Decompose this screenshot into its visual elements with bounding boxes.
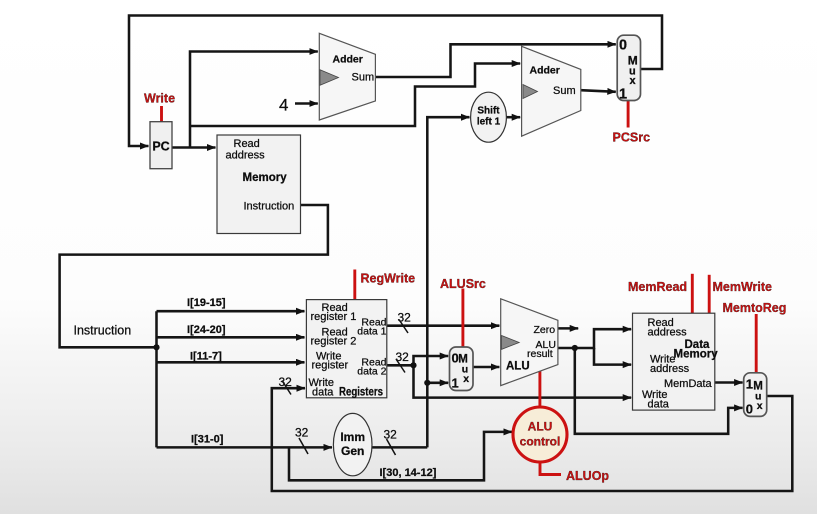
svg-text:x: x xyxy=(757,400,763,412)
svg-text:Imm: Imm xyxy=(340,430,365,444)
svg-text:Adder: Adder xyxy=(333,54,363,66)
svg-text:PC: PC xyxy=(152,140,169,154)
svg-text:RegWrite: RegWrite xyxy=(361,272,416,286)
svg-text:address: address xyxy=(650,363,690,375)
svg-text:Memory: Memory xyxy=(674,349,719,361)
svg-text:I[19-15]: I[19-15] xyxy=(187,297,226,309)
svg-text:I[11-7]: I[11-7] xyxy=(190,351,222,363)
svg-text:Adder: Adder xyxy=(530,65,560,77)
svg-text:Instruction: Instruction xyxy=(244,201,295,213)
svg-text:I[24-20]: I[24-20] xyxy=(187,324,226,336)
svg-text:register: register xyxy=(312,359,349,371)
svg-text:Read: Read xyxy=(234,138,260,150)
svg-text:data 2: data 2 xyxy=(357,366,386,378)
svg-text:4: 4 xyxy=(279,96,288,115)
svg-text:x: x xyxy=(630,75,637,87)
svg-text:0: 0 xyxy=(746,402,753,417)
svg-text:PCSrc: PCSrc xyxy=(613,131,651,145)
svg-text:Sum: Sum xyxy=(352,72,375,84)
svg-text:address: address xyxy=(648,327,688,339)
svg-text:data: data xyxy=(648,399,670,411)
svg-text:register 1: register 1 xyxy=(311,311,357,323)
svg-text:ALU: ALU xyxy=(506,361,530,373)
svg-text:Instruction: Instruction xyxy=(74,324,132,338)
svg-text:32: 32 xyxy=(384,428,398,442)
svg-text:1: 1 xyxy=(452,376,459,391)
svg-text:Shift: Shift xyxy=(477,106,500,117)
svg-text:left 1: left 1 xyxy=(477,117,501,128)
svg-text:result: result xyxy=(527,348,553,360)
svg-text:register 2: register 2 xyxy=(311,336,357,348)
svg-text:0: 0 xyxy=(619,38,627,54)
svg-text:address: address xyxy=(226,150,266,162)
svg-text:ALUOp: ALUOp xyxy=(566,469,609,483)
svg-text:32: 32 xyxy=(398,311,412,325)
svg-text:Zero: Zero xyxy=(534,324,556,336)
svg-text:MemtoReg: MemtoReg xyxy=(723,301,787,315)
svg-text:Memory: Memory xyxy=(243,172,288,184)
svg-text:data: data xyxy=(312,386,334,398)
svg-text:I[31-0]: I[31-0] xyxy=(191,434,224,446)
svg-text:ALUSrc: ALUSrc xyxy=(440,277,486,291)
svg-text:ALU: ALU xyxy=(528,420,553,434)
svg-text:x: x xyxy=(463,373,469,385)
svg-text:32: 32 xyxy=(295,426,309,440)
svg-text:Gen: Gen xyxy=(341,444,364,458)
svg-text:MemRead: MemRead xyxy=(628,280,687,294)
svg-text:1: 1 xyxy=(619,87,627,103)
svg-text:1: 1 xyxy=(746,377,753,392)
svg-text:MemData: MemData xyxy=(664,378,713,390)
svg-text:Write: Write xyxy=(144,92,175,106)
svg-text:I[30, 14-12]: I[30, 14-12] xyxy=(380,467,437,479)
svg-text:Sum: Sum xyxy=(553,85,576,97)
svg-text:Registers: Registers xyxy=(339,386,383,398)
svg-text:MemWrite: MemWrite xyxy=(713,280,773,294)
svg-text:data 1: data 1 xyxy=(357,326,386,338)
svg-text:control: control xyxy=(520,435,561,449)
